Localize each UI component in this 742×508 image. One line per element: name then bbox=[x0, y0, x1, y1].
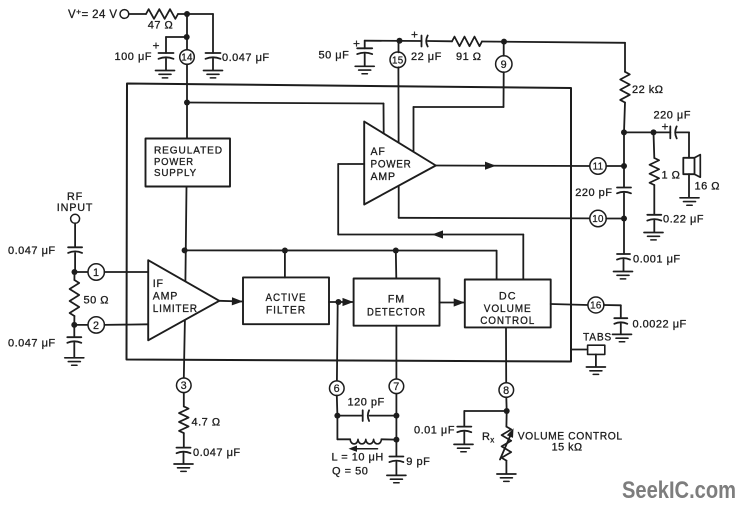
svg-text:Q = 50: Q = 50 bbox=[332, 466, 368, 478]
svg-text:DETECTOR: DETECTOR bbox=[367, 307, 426, 319]
svg-text:CONTROL: CONTROL bbox=[480, 315, 535, 327]
svg-text:0.0022 μF: 0.0022 μF bbox=[633, 319, 687, 331]
svg-text:0.047 μF: 0.047 μF bbox=[193, 447, 241, 459]
svg-text:FM: FM bbox=[388, 294, 406, 306]
svg-text:SeekIC.com: SeekIC.com bbox=[622, 477, 736, 504]
svg-text:REGULATED: REGULATED bbox=[154, 146, 223, 157]
svg-text:0.01 μF: 0.01 μF bbox=[414, 425, 455, 437]
svg-text:50 Ω: 50 Ω bbox=[84, 295, 110, 307]
svg-text:16: 16 bbox=[590, 301, 602, 312]
svg-text:+: + bbox=[152, 39, 159, 53]
svg-text:47 Ω: 47 Ω bbox=[148, 20, 174, 32]
svg-text:9: 9 bbox=[501, 59, 507, 71]
svg-text:8: 8 bbox=[503, 385, 509, 397]
svg-text:91 Ω: 91 Ω bbox=[456, 51, 482, 63]
svg-text:DC: DC bbox=[499, 291, 517, 303]
svg-text:7: 7 bbox=[393, 381, 399, 393]
svg-text:AMP: AMP bbox=[153, 291, 178, 303]
svg-text:22 μF: 22 μF bbox=[411, 51, 442, 63]
svg-text:+: + bbox=[661, 120, 668, 134]
svg-text:100 μF: 100 μF bbox=[115, 51, 152, 63]
svg-text:2: 2 bbox=[93, 320, 99, 332]
svg-text:9 pF: 9 pF bbox=[406, 456, 430, 468]
svg-text:LIMITER: LIMITER bbox=[153, 303, 198, 315]
svg-text:SUPPLY: SUPPLY bbox=[154, 168, 197, 179]
svg-text:220 μF: 220 μF bbox=[654, 110, 691, 122]
svg-text:15 kΩ: 15 kΩ bbox=[552, 442, 583, 454]
svg-text:16 Ω: 16 Ω bbox=[695, 181, 721, 193]
svg-text:1 Ω: 1 Ω bbox=[662, 170, 681, 182]
svg-text:22 kΩ: 22 kΩ bbox=[632, 84, 664, 96]
svg-text:120 pF: 120 pF bbox=[348, 397, 385, 409]
svg-text:0.001 μF: 0.001 μF bbox=[633, 254, 681, 266]
svg-text:TABS: TABS bbox=[583, 332, 612, 344]
svg-text:POWER: POWER bbox=[154, 157, 194, 168]
svg-text:FILTER: FILTER bbox=[266, 305, 306, 317]
svg-text:15: 15 bbox=[392, 55, 404, 66]
svg-text:IF: IF bbox=[153, 278, 164, 290]
svg-text:6: 6 bbox=[334, 383, 340, 395]
svg-text:INPUT: INPUT bbox=[57, 202, 93, 214]
svg-text:220 pF: 220 pF bbox=[575, 187, 612, 199]
svg-text:0.047 μF: 0.047 μF bbox=[8, 337, 56, 349]
svg-text:V+= 24 V: V+= 24 V bbox=[68, 7, 117, 22]
svg-text:AMP: AMP bbox=[371, 171, 396, 183]
svg-text:50 μF: 50 μF bbox=[319, 50, 350, 62]
svg-text:ACTIVE: ACTIVE bbox=[266, 292, 307, 304]
svg-text:POWER: POWER bbox=[371, 159, 412, 171]
svg-text:AF: AF bbox=[371, 146, 386, 158]
svg-text:0.047 μF: 0.047 μF bbox=[8, 245, 56, 257]
svg-text:3: 3 bbox=[181, 380, 187, 392]
svg-text:0.22 μF: 0.22 μF bbox=[663, 214, 704, 226]
svg-text:VOLUME: VOLUME bbox=[484, 303, 532, 315]
svg-text:10: 10 bbox=[592, 214, 604, 225]
svg-text:+: + bbox=[411, 27, 418, 41]
svg-text:4.7 Ω: 4.7 Ω bbox=[192, 417, 221, 429]
svg-text:14: 14 bbox=[181, 53, 193, 64]
svg-text:L = 10 μH: L = 10 μH bbox=[332, 452, 384, 464]
svg-text:+: + bbox=[353, 37, 360, 51]
svg-text:11: 11 bbox=[593, 162, 604, 173]
svg-text:1: 1 bbox=[93, 267, 99, 279]
svg-text:0.047 μF: 0.047 μF bbox=[222, 52, 270, 64]
